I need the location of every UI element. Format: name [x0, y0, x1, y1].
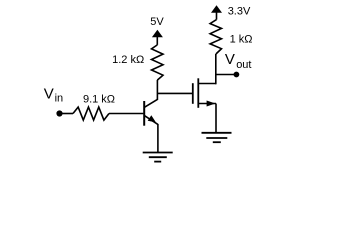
transistor Q1 collector diagonal — [144, 99, 157, 107]
svg-text:V: V — [225, 51, 235, 68]
wire source to ground — [215, 104, 217, 133]
wire 3.3V arrow stem — [216, 12, 218, 20]
resistor 1 kOhm — [210, 20, 221, 54]
svg-text:5V: 5V — [150, 16, 164, 28]
transistor Q1 emitter arrowhead — [149, 116, 155, 121]
input terminal dot — [56, 110, 62, 116]
wire drain horizontal — [198, 83, 216, 85]
svg-text:1 kΩ: 1 kΩ — [230, 33, 253, 45]
supply arrow 5V — [152, 30, 163, 37]
svg-text:1.2 kΩ: 1.2 kΩ — [112, 54, 144, 66]
transistor M1 MOSFET channel bar — [197, 78, 199, 108]
svg-text:out: out — [236, 59, 251, 71]
svg-text:9.1 kΩ: 9.1 kΩ — [83, 93, 115, 105]
wire node to gate — [157, 92, 192, 94]
transistor Q1 NPN base bar — [143, 101, 145, 126]
node Vout label — [225, 51, 252, 71]
svg-text:3.3V: 3.3V — [228, 5, 251, 17]
ground (emitter) — [143, 153, 173, 162]
svg-text:in: in — [55, 93, 64, 105]
resistor 1.2 kOhm — [152, 45, 164, 80]
supply arrow 3.3V — [211, 5, 222, 13]
svg-text:V: V — [44, 86, 54, 103]
resistor 9.1 kOhm — [73, 107, 109, 120]
wire drain vertical to resistor — [215, 54, 217, 84]
wire source horizontal — [198, 103, 216, 105]
wire input dot to resistor — [62, 113, 73, 115]
ground (source) — [202, 133, 232, 142]
wire emitter to ground — [157, 124, 159, 153]
wire resistor to base — [109, 113, 143, 115]
output terminal dot — [234, 72, 240, 78]
transistor M1 MOSFET gate bar — [192, 83, 194, 104]
wire Vout tap — [216, 74, 234, 76]
transistor Q1 emitter diagonal — [144, 115, 158, 124]
wire collector vertical to node — [156, 80, 158, 100]
node Vin label — [44, 86, 63, 105]
transistor M1 source arrowhead — [207, 101, 216, 107]
wire 5V arrow stem — [156, 37, 158, 45]
